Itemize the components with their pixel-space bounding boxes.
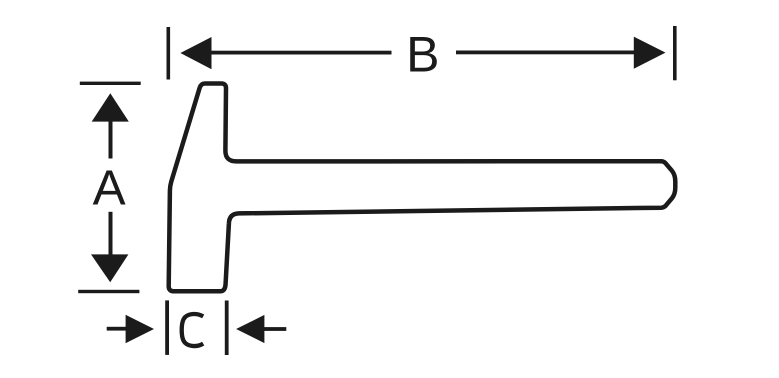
dimension B: line left segment [208,51,392,55]
dimension C: right arrow stem [263,327,287,331]
dimension A: line upper segment [109,120,113,159]
dimension C: left extension tick [165,300,169,355]
dimension B: left extension tick [167,27,171,80]
dimension C: left arrowhead (pointing right) [126,315,154,343]
svg-text:A: A [93,160,126,215]
dimension A: up arrowhead [92,93,129,121]
dimension A: bottom extension tick [78,290,139,293]
hammer outline [169,84,676,292]
dimension C: right arrowhead (pointing left) [236,315,264,343]
dimension C: left arrow stem [107,327,128,331]
dimension B: left arrowhead [180,37,211,69]
dimension A: top extension tick [80,82,141,85]
svg-text:B: B [406,27,439,83]
dimension B: right arrowhead [634,37,666,69]
dimension B: right extension tick [673,26,677,80]
dimension A: line lower segment [109,212,113,257]
dimension C: right extension tick [225,301,229,356]
dimension B: line right segment [456,51,637,55]
dimension A: down arrowhead [91,254,128,282]
label C [182,314,204,346]
